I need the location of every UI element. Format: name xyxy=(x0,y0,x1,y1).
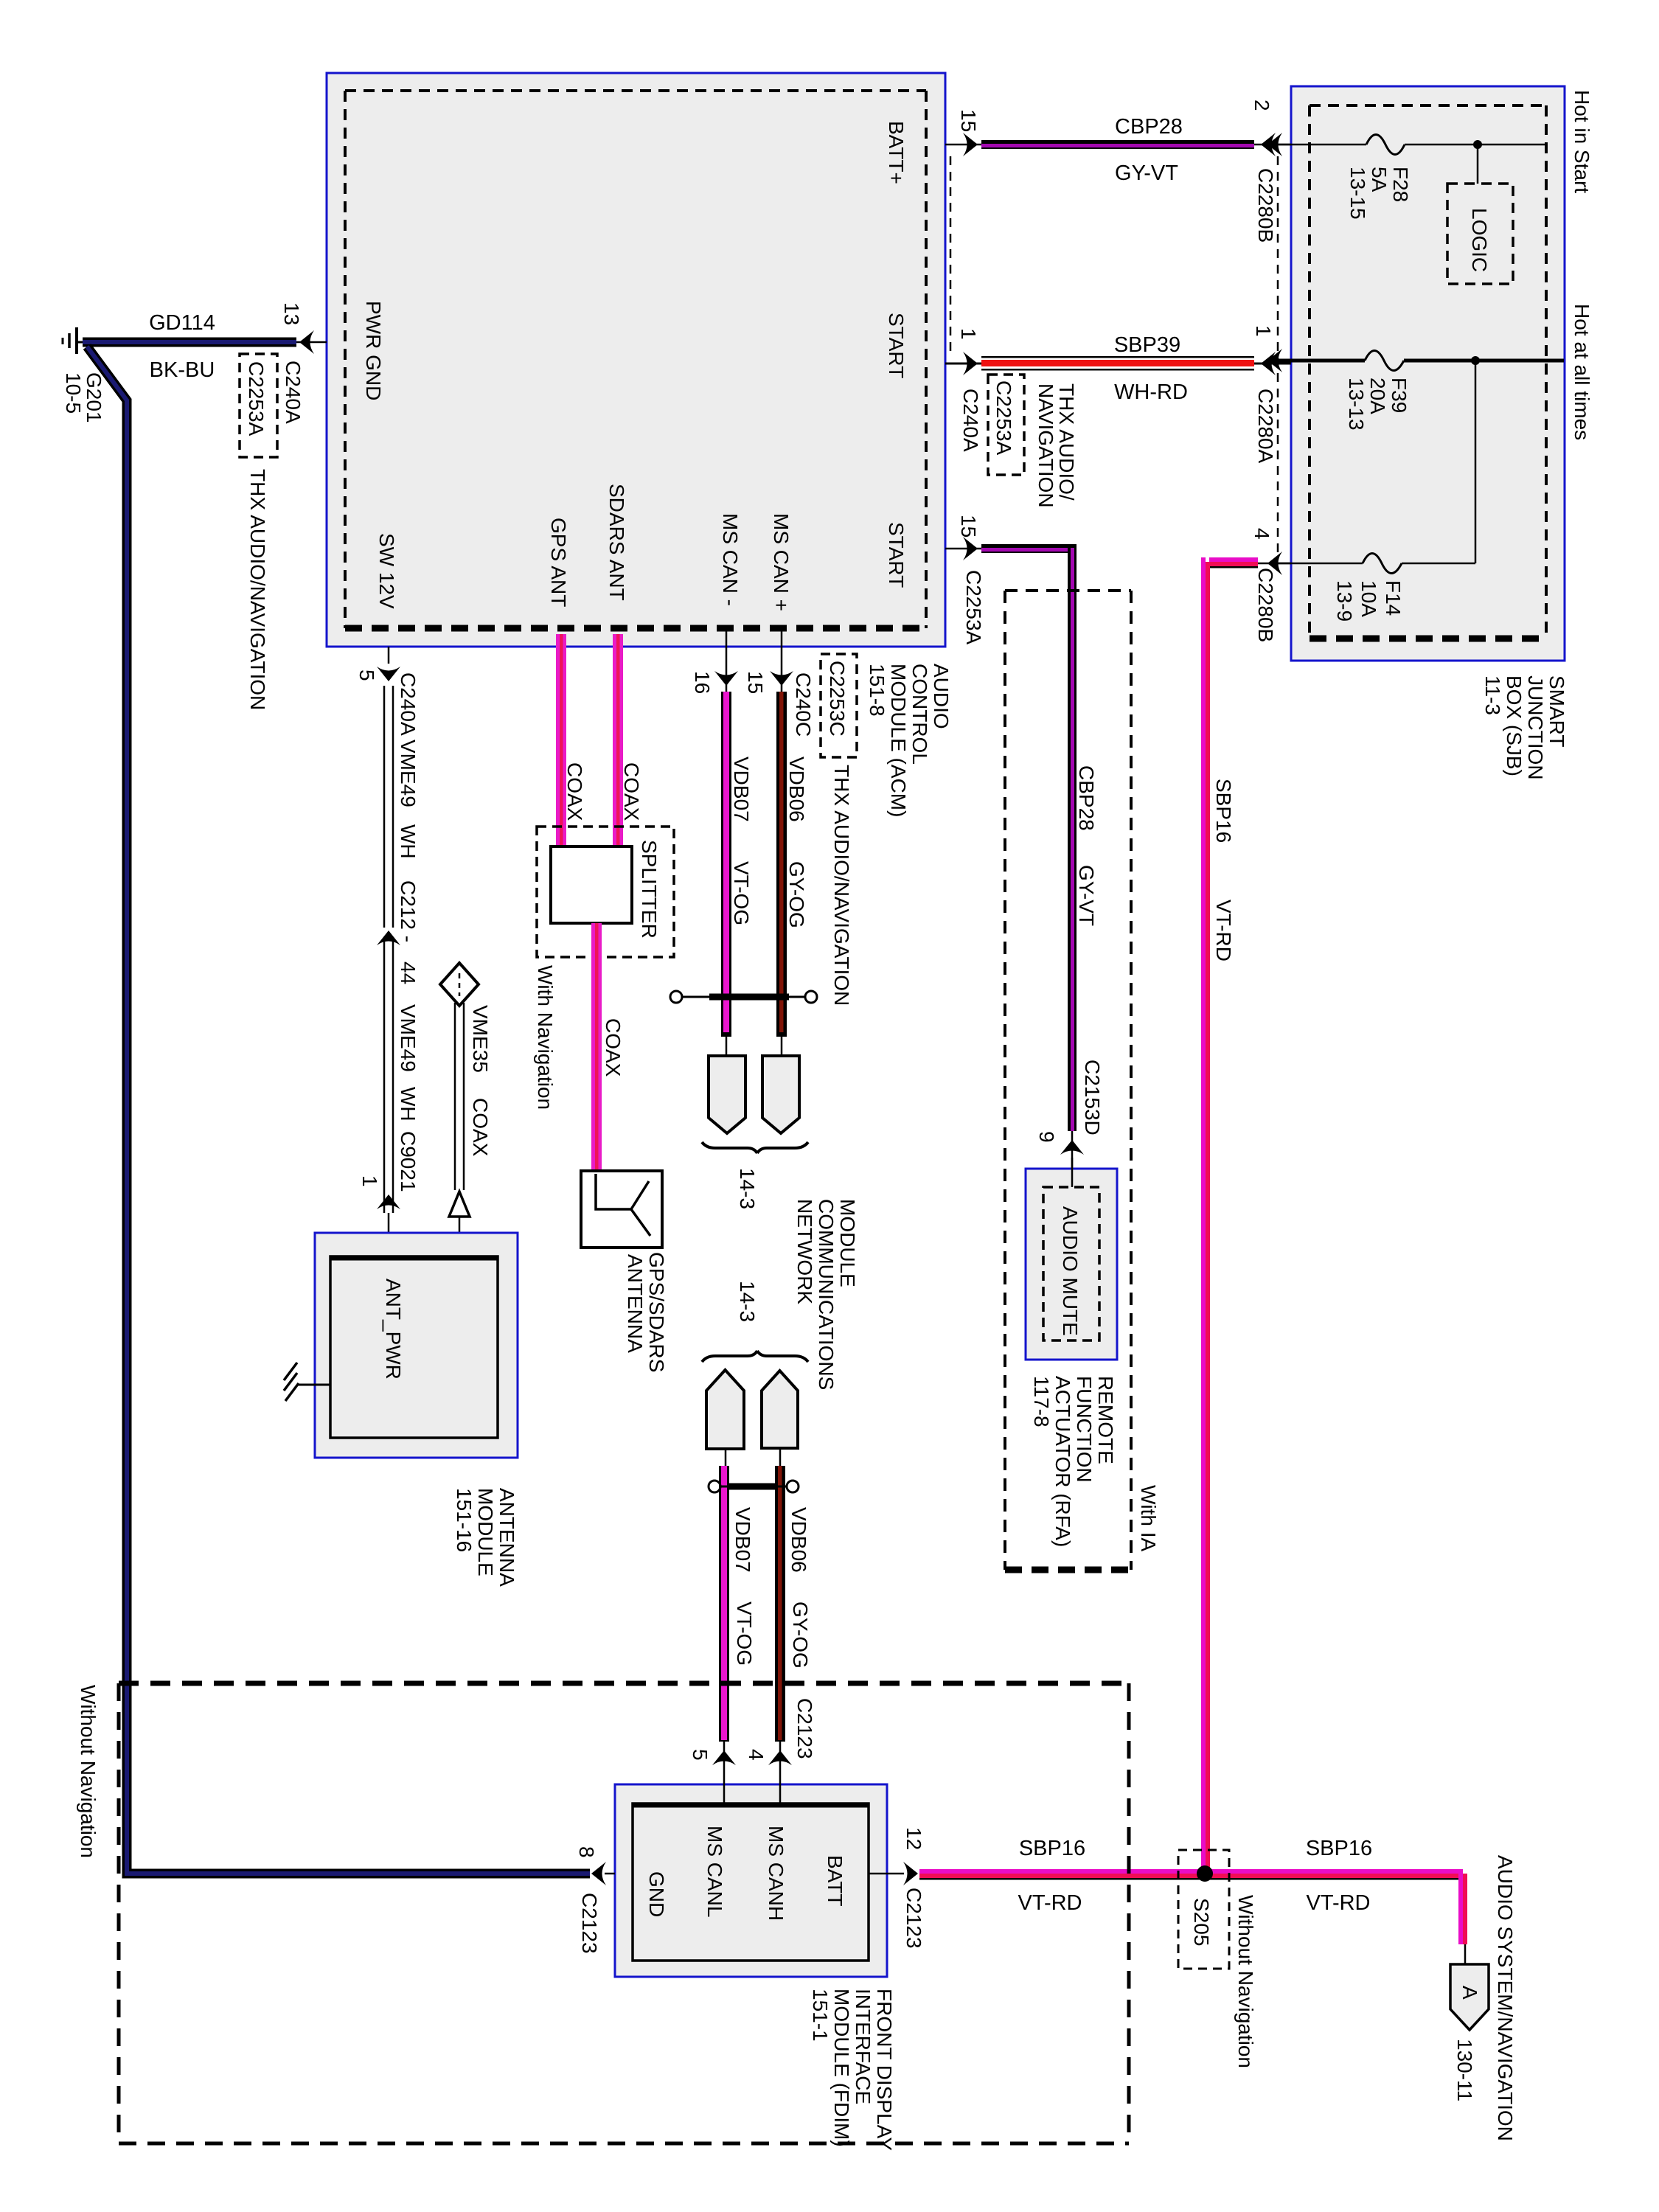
svg-text:C212 -: C212 - xyxy=(397,880,420,942)
svg-text:WH: WH xyxy=(397,1087,420,1121)
wire color VT-RD vertical xyxy=(1212,900,1235,961)
fuse F39 labels xyxy=(1345,378,1411,431)
svg-text:GY-OG: GY-OG xyxy=(785,861,808,928)
wire label GY-OG upper xyxy=(785,861,808,928)
connector pin 12 arrow FDIM BATT xyxy=(869,1862,918,1885)
fuse F28 5A xyxy=(1366,135,1405,155)
fuse F14 10A xyxy=(1363,554,1402,574)
connector pin 13 arrow ACM PWR GND xyxy=(299,330,314,354)
option label THX AUDIO/NAVIGATION left xyxy=(246,469,269,710)
inline connector C2253A box at PWR GND xyxy=(240,354,277,457)
svg-text:SPLITTER: SPLITTER xyxy=(638,840,661,939)
pin label BATT xyxy=(824,1855,846,1906)
pin number 12 xyxy=(902,1827,925,1850)
node junction on F28 wire xyxy=(1473,140,1482,149)
wire coax splitter to antenna xyxy=(591,923,602,1171)
connector pin 15 arrow ACM START2 xyxy=(963,537,978,560)
inline connector C2253C box xyxy=(821,654,857,757)
wire label VT-OG lower xyxy=(733,1601,756,1666)
svg-text:C2253A: C2253A xyxy=(992,380,1015,456)
svg-text:15: 15 xyxy=(957,109,980,132)
pin number 5 ACM SW12V xyxy=(355,669,378,681)
svg-text:GY-OG: GY-OG xyxy=(789,1601,812,1669)
svg-text:C2123: C2123 xyxy=(902,1888,925,1949)
svg-text:SMARTJUNCTIONBOX (SJB)11-3: SMARTJUNCTIONBOX (SJB)11-3 xyxy=(1481,675,1568,780)
pin label MS CAN - xyxy=(719,513,742,606)
wire label VDB07 upper xyxy=(730,757,753,822)
wire label VDB07 lower xyxy=(731,1507,754,1573)
pin number 1 ACM xyxy=(957,328,980,340)
option label THX AUDIO/NAVIGATION xyxy=(1034,383,1078,508)
wire name SBP16 vertical xyxy=(1212,779,1235,843)
wire CBP28 START to RFA xyxy=(945,544,1077,1189)
connector pin 15 arrow ACM BATT+ xyxy=(963,133,978,156)
svg-text:4: 4 xyxy=(1251,528,1273,540)
svg-text:Hot at all times: Hot at all times xyxy=(1571,304,1593,440)
connector dashed line SJB side xyxy=(1277,156,1279,553)
pin label MS CANH xyxy=(765,1826,787,1921)
svg-text:Hot in Start: Hot in Start xyxy=(1571,90,1593,193)
svg-text:GY-VT: GY-VT xyxy=(1075,865,1098,926)
svg-text:C2253C: C2253C xyxy=(826,661,849,737)
svg-text:GD114: GD114 xyxy=(149,311,215,335)
wire GD114 down and to FDIM xyxy=(87,347,590,1874)
svg-text:CBP28: CBP28 xyxy=(1115,115,1183,139)
svg-text:14-3: 14-3 xyxy=(736,1281,759,1322)
connector pin 5 arrow FDIM xyxy=(712,1750,736,1765)
connector label C2280B lower xyxy=(1254,568,1277,642)
wire stub to A connector xyxy=(1464,1944,1467,1966)
option label Without Navigation at splice xyxy=(1234,1895,1257,2068)
svg-text:VT-OG: VT-OG xyxy=(733,1601,756,1666)
connector pin 1 arrow SJB xyxy=(1267,349,1282,372)
connector label C2123 BATT xyxy=(902,1888,925,1949)
fuse F14 labels xyxy=(1333,580,1405,622)
connector label C240A at PWR GND xyxy=(282,361,305,424)
svg-text:C240A: C240A xyxy=(959,389,982,452)
svg-text:C2253A: C2253A xyxy=(245,361,268,437)
svg-text:GND: GND xyxy=(645,1871,668,1917)
connector label C2123 top xyxy=(793,1698,816,1759)
wire labels C240A VME49 WH C212 xyxy=(397,672,420,736)
svg-text:PWR GND: PWR GND xyxy=(362,301,385,400)
pin number 8 xyxy=(575,1846,598,1858)
svg-text:SBP16: SBP16 xyxy=(1306,1837,1372,1860)
terminal spade up left xyxy=(706,1370,744,1449)
ground label G201 10-5 xyxy=(62,372,105,423)
connector pin 2 arrow SJB xyxy=(1267,133,1282,156)
connector arrow at SJB end of CBP28 xyxy=(1261,133,1276,156)
connector dashed line ACM side C240A xyxy=(950,156,952,355)
svg-text:G20110-5: G20110-5 xyxy=(62,372,105,423)
wire GD114 ground horizontal xyxy=(83,338,327,347)
pin label BATT+ xyxy=(885,121,908,184)
svg-text:ANTENNAMODULE151-16: ANTENNAMODULE151-16 xyxy=(453,1488,518,1587)
svg-text:THX AUDIO/NAVIGATION: THX AUDIO/NAVIGATION xyxy=(246,469,269,710)
svg-text:8: 8 xyxy=(575,1846,598,1858)
svg-text:VT-RD: VT-RD xyxy=(1018,1891,1082,1915)
svg-text:4: 4 xyxy=(745,1749,768,1761)
connector pin 4 arrow SJB xyxy=(1267,552,1282,575)
svg-text:MS CANH: MS CANH xyxy=(765,1826,787,1921)
svg-text:VME35: VME35 xyxy=(469,1005,492,1073)
wire color GY-VT vertical xyxy=(1075,865,1098,926)
open coax arrow into ANT_PWR xyxy=(449,1192,470,1256)
node junction on F39 wire xyxy=(1471,356,1480,365)
wire name CBP28 vertical xyxy=(1075,765,1098,831)
svg-text:MODULECOMMUNICATIONSNETWORK: MODULECOMMUNICATIONSNETWORK xyxy=(793,1199,859,1390)
splitter body box xyxy=(551,846,632,923)
svg-text:BK-BU: BK-BU xyxy=(150,358,215,382)
wire to LOGIC xyxy=(1477,145,1479,184)
module ACM audio control module body xyxy=(327,73,945,647)
ground G201 symbol xyxy=(63,327,96,354)
terminal spade down left xyxy=(709,1056,745,1133)
svg-text:REMOTEFUNCTIONACTUATOR (RFA)11: REMOTEFUNCTIONACTUATOR (RFA)117-8 xyxy=(1030,1376,1117,1547)
wire F14 branch xyxy=(1270,361,1475,563)
wire labels VME49 WH C9021 xyxy=(397,1004,420,1072)
wire SBP16 horizontal through splice xyxy=(919,1869,1467,1944)
svg-text:Without Navigation: Without Navigation xyxy=(77,1685,100,1858)
wire VDB07 lower xyxy=(719,1449,729,1804)
svg-text:5: 5 xyxy=(689,1749,712,1761)
svg-text:GPS ANT: GPS ANT xyxy=(547,518,570,607)
svg-text:C240A: C240A xyxy=(397,672,420,736)
wire label VDB06 upper xyxy=(785,757,808,822)
pin label MS CAN + xyxy=(770,513,793,611)
module SJB name label xyxy=(1481,675,1568,780)
gps sdars antenna label xyxy=(624,1252,668,1372)
svg-text:MS CANL: MS CANL xyxy=(703,1826,726,1917)
wire coax GPS ANT xyxy=(556,634,566,846)
break brace upper xyxy=(702,1142,808,1153)
svg-text:C2280B: C2280B xyxy=(1254,568,1277,642)
svg-text:1: 1 xyxy=(957,328,980,340)
wire labels VME35 COAX xyxy=(469,1005,492,1073)
option label With Navigation xyxy=(534,965,557,1110)
connector pin 1 arrow ACM START xyxy=(963,352,978,375)
pin label GPS ANT xyxy=(547,518,570,607)
wire pin9 stub into RFA xyxy=(1071,1158,1074,1187)
svg-text:COAX: COAX xyxy=(469,1098,492,1157)
svg-text:VDB06: VDB06 xyxy=(787,1507,810,1573)
svg-text:AUDIOCONTROLMODULE (ACM)151-8: AUDIOCONTROLMODULE (ACM)151-8 xyxy=(866,664,953,817)
svg-text:VDB06: VDB06 xyxy=(785,757,808,822)
svg-text:C240A: C240A xyxy=(282,361,305,424)
svg-text:16: 16 xyxy=(691,671,714,694)
pin number 9 xyxy=(1035,1131,1058,1143)
svg-text:THX AUDIO/NAVIGATION: THX AUDIO/NAVIGATION xyxy=(830,765,853,1006)
svg-text:VME49: VME49 xyxy=(397,1004,420,1072)
pin number 1 ANT_PWR xyxy=(358,1175,381,1187)
module RFA body xyxy=(1026,1169,1117,1360)
svg-text:1: 1 xyxy=(358,1175,381,1187)
svg-text:2: 2 xyxy=(1251,100,1273,111)
svg-text:SBP16: SBP16 xyxy=(1212,779,1235,843)
option dashed box RFA region xyxy=(1005,591,1131,1570)
svg-text:AUDIO SYSTEM/NAVIGATION: AUDIO SYSTEM/NAVIGATION xyxy=(1494,1855,1517,2141)
wire VDB07 upper MS CAN- xyxy=(714,628,738,1056)
break brace lower xyxy=(702,1351,808,1362)
svg-text:Without Navigation: Without Navigation xyxy=(1234,1895,1257,2068)
wire F39 feed Hot at all times xyxy=(1270,359,1564,363)
net label Hot at all times xyxy=(1571,304,1593,440)
svg-text:VDB07: VDB07 xyxy=(730,757,753,822)
svg-text:13: 13 xyxy=(280,302,303,325)
pin number 15 START2 xyxy=(957,515,980,538)
wire VDB06 upper MS CAN+ xyxy=(770,628,793,1056)
splitter dashed box xyxy=(537,827,674,957)
gps sdars antenna body xyxy=(581,1171,662,1248)
connector arrow at SJB end of SBP39 xyxy=(1261,352,1276,375)
smart junction box SJB body xyxy=(1291,86,1565,661)
svg-text:SBP39: SBP39 xyxy=(1114,333,1180,357)
svg-text:1: 1 xyxy=(1252,325,1275,337)
wire label VDB06 lower xyxy=(787,1507,810,1573)
svg-text:WH: WH xyxy=(397,824,420,859)
svg-text:C2123: C2123 xyxy=(578,1893,601,1954)
pin number 5 FDIM xyxy=(689,1749,712,1761)
pin label START 1 xyxy=(885,313,908,378)
terminal spade down right xyxy=(762,1056,799,1133)
pin number 16 xyxy=(691,671,714,694)
svg-text:VT-RD: VT-RD xyxy=(1212,900,1235,961)
wire VDB06 lower xyxy=(775,1448,785,1804)
twisted pair symbol lower xyxy=(709,1481,799,1492)
svg-text:C9021: C9021 xyxy=(397,1131,420,1192)
off-page connector A xyxy=(1450,1964,1489,2030)
splitter label xyxy=(638,840,661,939)
module RFA name label xyxy=(1030,1376,1117,1547)
fuse F28 labels xyxy=(1346,167,1412,220)
svg-text:C2123: C2123 xyxy=(793,1698,816,1759)
connector label C2253A under START2 xyxy=(962,570,985,645)
svg-text:With IA: With IA xyxy=(1137,1485,1160,1552)
svg-text:C2280A: C2280A xyxy=(1254,389,1277,464)
wire coax SDARS ANT xyxy=(613,634,623,846)
svg-text:VDB07: VDB07 xyxy=(731,1507,754,1573)
svg-text:SBP16: SBP16 xyxy=(1019,1837,1085,1860)
splice S205 junction dot xyxy=(1197,1865,1213,1882)
wire VME49 white double line xyxy=(384,686,393,1213)
pin label MS CANL xyxy=(703,1826,726,1917)
svg-text:14-3: 14-3 xyxy=(736,1168,759,1209)
fuse F39 20A xyxy=(1365,351,1404,371)
option diamond node VME35 xyxy=(440,963,479,1006)
module ACM name label xyxy=(866,664,953,817)
wire label COAX right xyxy=(620,762,643,821)
page reference 14-3 upper xyxy=(736,1168,759,1209)
svg-text:SW 12V: SW 12V xyxy=(375,533,398,609)
wire F28 feed xyxy=(1270,144,1546,146)
pin number 13 xyxy=(280,302,303,325)
svg-text:9: 9 xyxy=(1035,1131,1058,1143)
wire VME35 coax double line xyxy=(455,1003,464,1190)
svg-text:SDARS ANT: SDARS ANT xyxy=(605,484,628,601)
svg-text:COAX: COAX xyxy=(602,1018,625,1077)
pin label SDARS ANT xyxy=(605,484,628,601)
pin number 1 SJB xyxy=(1252,325,1275,337)
svg-text:130-11: 130-11 xyxy=(1453,2039,1476,2101)
pin label ANT_PWR xyxy=(382,1279,405,1380)
svg-text:15: 15 xyxy=(744,671,767,694)
pin label PWR GND xyxy=(362,301,385,400)
svg-text:MS CAN -: MS CAN - xyxy=(719,513,742,606)
svg-text:With Navigation: With Navigation xyxy=(534,965,557,1110)
page reference 130-11 xyxy=(1453,2039,1476,2101)
module antenna module name label xyxy=(453,1488,518,1587)
pin label START 2 xyxy=(885,522,908,588)
connector C212 arrow mid wire xyxy=(377,928,400,945)
svg-text:START: START xyxy=(885,313,908,378)
option dashed region Without Navigation xyxy=(119,1683,1129,2143)
module antenna module body ANT_PWR xyxy=(315,1233,518,1458)
svg-text:5: 5 xyxy=(355,669,378,681)
pin number 4 xyxy=(1251,528,1273,540)
connector pin 8 arrow FDIM GND xyxy=(591,1862,615,1885)
connector label C2123 GND xyxy=(578,1893,601,1954)
connector pin 4 arrow FDIM xyxy=(768,1750,792,1765)
svg-text:CBP28: CBP28 xyxy=(1075,765,1098,831)
wire label COAX left xyxy=(563,762,586,821)
svg-text:C240C: C240C xyxy=(792,672,815,737)
svg-text:LOGIC: LOGIC xyxy=(1468,208,1491,272)
chassis ground at antenna module xyxy=(284,1363,330,1401)
option label THX AUDIO/NAVIGATION CAN xyxy=(830,765,853,1006)
wire SBP16 from SJB pin4 xyxy=(1201,557,1291,1874)
svg-text:GPS/SDARSANTENNA: GPS/SDARSANTENNA xyxy=(624,1252,668,1372)
svg-text:THX AUDIO/NAVIGATION: THX AUDIO/NAVIGATION xyxy=(1034,383,1078,508)
svg-text:START: START xyxy=(885,522,908,588)
audio mute dashed box xyxy=(1043,1187,1099,1340)
connector pin 1 arrow ANT_PWR xyxy=(377,1194,400,1256)
svg-text:C2280B: C2280B xyxy=(1254,168,1277,243)
terminal spade up right xyxy=(762,1371,798,1448)
pin number 15 BATT+ xyxy=(957,109,980,132)
page reference 14-3 lower xyxy=(736,1281,759,1322)
option label With IA xyxy=(1137,1485,1160,1552)
wire label VT-OG upper xyxy=(730,861,753,925)
svg-text:C2153D: C2153D xyxy=(1081,1060,1104,1135)
svg-text:F1410A13-9: F1410A13-9 xyxy=(1333,580,1405,622)
splice S205 dashed box xyxy=(1178,1850,1229,1969)
pin label GND xyxy=(645,1871,668,1917)
svg-text:GY-VT: GY-VT xyxy=(1115,161,1178,185)
svg-text:COAX: COAX xyxy=(563,762,586,821)
connector label C240C xyxy=(792,672,815,737)
connector label C2153D xyxy=(1081,1060,1104,1135)
svg-text:C2253A: C2253A xyxy=(962,570,985,645)
svg-text:WH-RD: WH-RD xyxy=(1114,380,1188,404)
connector label C2280B xyxy=(1254,168,1277,243)
svg-text:S205: S205 xyxy=(1190,1898,1213,1946)
pin number 2 xyxy=(1251,100,1273,111)
connector label C240A xyxy=(959,389,982,452)
svg-text:VT-RD: VT-RD xyxy=(1307,1891,1371,1915)
svg-text:ANT_PWR: ANT_PWR xyxy=(382,1279,405,1380)
connector label C2280A xyxy=(1254,389,1277,464)
svg-text:BATT: BATT xyxy=(824,1855,846,1906)
svg-text:AUDIO MUTE: AUDIO MUTE xyxy=(1059,1206,1082,1336)
svg-text:VT-OG: VT-OG xyxy=(730,861,753,925)
net label Hot in Start xyxy=(1571,90,1593,193)
net label AUDIO SYSTEM/NAVIGATION xyxy=(1494,1855,1517,2141)
svg-text:12: 12 xyxy=(902,1827,925,1850)
wire SW12V pin stub xyxy=(377,647,400,681)
pin label SW 12V xyxy=(375,533,398,609)
wire CBP28 BATT+ to SJB xyxy=(945,140,1291,149)
connector pin 9 arrow RFA xyxy=(1060,1140,1084,1155)
svg-text:A: A xyxy=(1458,1986,1481,2000)
svg-text:BATT+: BATT+ xyxy=(885,121,908,184)
inline connector C2253A box xyxy=(988,375,1024,475)
svg-text:15: 15 xyxy=(957,515,980,538)
logic block LOGIC xyxy=(1447,184,1513,284)
wire SBP39 START xyxy=(945,356,1291,371)
module FDIM body xyxy=(615,1784,887,1977)
twisted pair symbol upper xyxy=(670,991,817,1003)
option dashed region top edge over wires xyxy=(119,1681,1129,1686)
pin number 15 CAN xyxy=(744,671,767,694)
svg-text:COAX: COAX xyxy=(620,762,643,821)
svg-text:VME49: VME49 xyxy=(397,740,420,807)
option label Without Navigation region xyxy=(77,1685,100,1858)
svg-text:MS CAN +: MS CAN + xyxy=(770,513,793,611)
svg-text:44: 44 xyxy=(397,961,420,984)
wire label COAX bottom xyxy=(602,1018,625,1077)
pin number 4 FDIM xyxy=(745,1749,768,1761)
module FDIM name label xyxy=(809,1989,896,2151)
svg-text:FRONT DISPLAYINTERFACEMODULE (: FRONT DISPLAYINTERFACEMODULE (FDIM)151-1 xyxy=(809,1989,896,2151)
wire label GY-OG lower xyxy=(789,1601,812,1669)
net label MODULE COMMUNICATIONS NETWORK xyxy=(793,1199,859,1390)
